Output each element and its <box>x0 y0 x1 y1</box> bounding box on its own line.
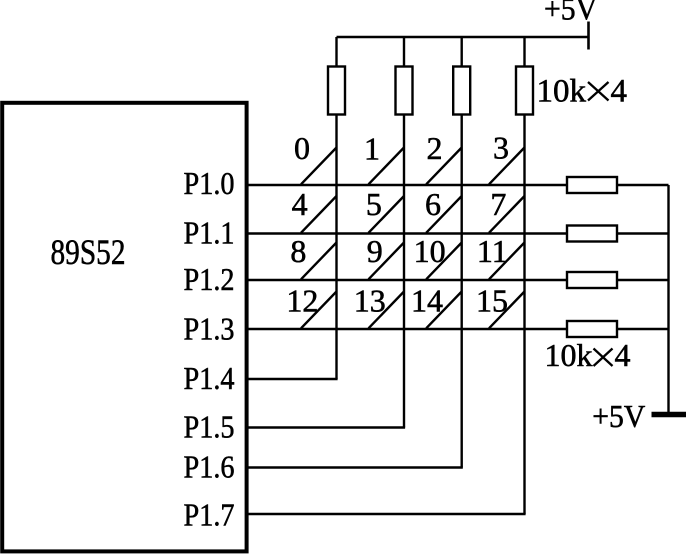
resistor R4 <box>516 67 533 115</box>
resistor R7 <box>567 272 617 288</box>
pin label P1.0 <box>184 165 235 201</box>
switch S8 key 8 <box>290 233 336 279</box>
wire P1.4 row <box>247 378 338 380</box>
svg-text:1: 1 <box>364 131 380 167</box>
wire column 0 drop to R1 <box>335 37 337 67</box>
switch S13 key 13 <box>354 283 404 329</box>
svg-text:P1.6: P1.6 <box>184 449 235 485</box>
pin label P1.3 <box>184 311 235 347</box>
svg-text:9: 9 <box>367 233 383 269</box>
switch S10 key 10 <box>414 233 462 279</box>
svg-text:10: 10 <box>414 233 446 269</box>
pin label P1.2 <box>184 261 235 297</box>
svg-text:13: 13 <box>354 283 386 319</box>
wire R5 to right bus <box>617 184 669 186</box>
svg-text:P1.4: P1.4 <box>184 360 235 396</box>
wire column 3 drop to R4 <box>523 37 525 67</box>
wire R7 to right bus <box>617 279 669 281</box>
resistor R6 <box>567 226 617 242</box>
switch S14 key 14 <box>411 283 462 329</box>
svg-text:12: 12 <box>286 283 318 319</box>
svg-text:+5V: +5V <box>592 398 645 434</box>
wire P1.0 row <box>247 184 568 186</box>
wire column 1 drop to R2 <box>403 37 405 67</box>
resistor R3 <box>453 67 470 115</box>
resistor R1 <box>328 67 345 115</box>
svg-text:89S52: 89S52 <box>51 232 126 272</box>
svg-text:10k: 10k <box>537 74 587 110</box>
switch S15 key 15 <box>476 283 525 329</box>
svg-text:2: 2 <box>427 130 443 166</box>
svg-text:10k: 10k <box>545 337 593 373</box>
value label 10k×4 bottom <box>545 337 631 373</box>
wire R8 to right bus <box>617 328 669 330</box>
value label 10k×4 top <box>537 74 628 110</box>
wire column 1 <box>403 115 405 428</box>
wire top +5V bus <box>337 36 589 38</box>
power +5V top <box>544 0 597 50</box>
wire P1.3 row <box>247 328 568 330</box>
power +5V bottom <box>592 398 686 434</box>
resistor R2 <box>396 67 413 115</box>
switch S1 key 1 <box>364 131 404 185</box>
svg-text:5: 5 <box>366 186 382 222</box>
svg-text:P1.3: P1.3 <box>184 311 235 347</box>
svg-text:6: 6 <box>425 186 441 222</box>
wire column 2 <box>461 115 463 468</box>
switch S11 key 11 <box>477 233 525 279</box>
wire R6 to right bus <box>617 232 669 234</box>
svg-text:8: 8 <box>290 233 306 269</box>
switch S3 key 3 <box>489 130 525 185</box>
svg-text:11: 11 <box>477 233 508 269</box>
wire P1.5 row <box>247 426 406 428</box>
switch S5 key 5 <box>366 186 404 233</box>
wire column 0 <box>335 115 337 380</box>
switch S0 key 0 <box>294 130 337 184</box>
pin label P1.1 <box>184 215 235 251</box>
pin label P1.7 <box>184 497 235 533</box>
pin label P1.4 <box>184 360 235 396</box>
resistor R8 <box>567 321 617 337</box>
svg-text:P1.0: P1.0 <box>184 165 235 201</box>
switch S12 key 12 <box>286 283 336 329</box>
switch S2 key 2 <box>426 130 462 184</box>
svg-text:3: 3 <box>493 130 509 166</box>
svg-text:4: 4 <box>292 186 308 222</box>
svg-text:4: 4 <box>615 337 631 373</box>
svg-text:0: 0 <box>294 130 310 166</box>
pin label P1.6 <box>184 449 235 485</box>
svg-text:4: 4 <box>611 74 628 110</box>
svg-text:7: 7 <box>490 186 506 222</box>
switch S4 key 4 <box>292 186 337 233</box>
svg-text:P1.5: P1.5 <box>184 409 235 445</box>
pin label P1.5 <box>184 409 235 445</box>
resistor R5 <box>567 177 617 193</box>
wire P1.6 row <box>247 466 463 468</box>
svg-text:P1.1: P1.1 <box>184 215 235 251</box>
svg-text:15: 15 <box>476 283 508 319</box>
switch S9 key 9 <box>367 233 404 279</box>
wire column 3 <box>523 115 525 515</box>
wire P1.2 row <box>247 279 568 281</box>
switch S7 key 7 <box>489 186 525 233</box>
svg-text:P1.2: P1.2 <box>184 261 235 297</box>
svg-text:P1.7: P1.7 <box>184 497 235 533</box>
wire P1.7 row <box>247 513 526 515</box>
wire P1.1 row <box>247 232 568 234</box>
IC U1 89S52 box <box>2 103 246 552</box>
svg-text:14: 14 <box>411 283 443 319</box>
switch S6 key 6 <box>425 186 462 233</box>
wire column 2 drop to R3 <box>461 37 463 67</box>
wire right bus <box>667 185 669 415</box>
